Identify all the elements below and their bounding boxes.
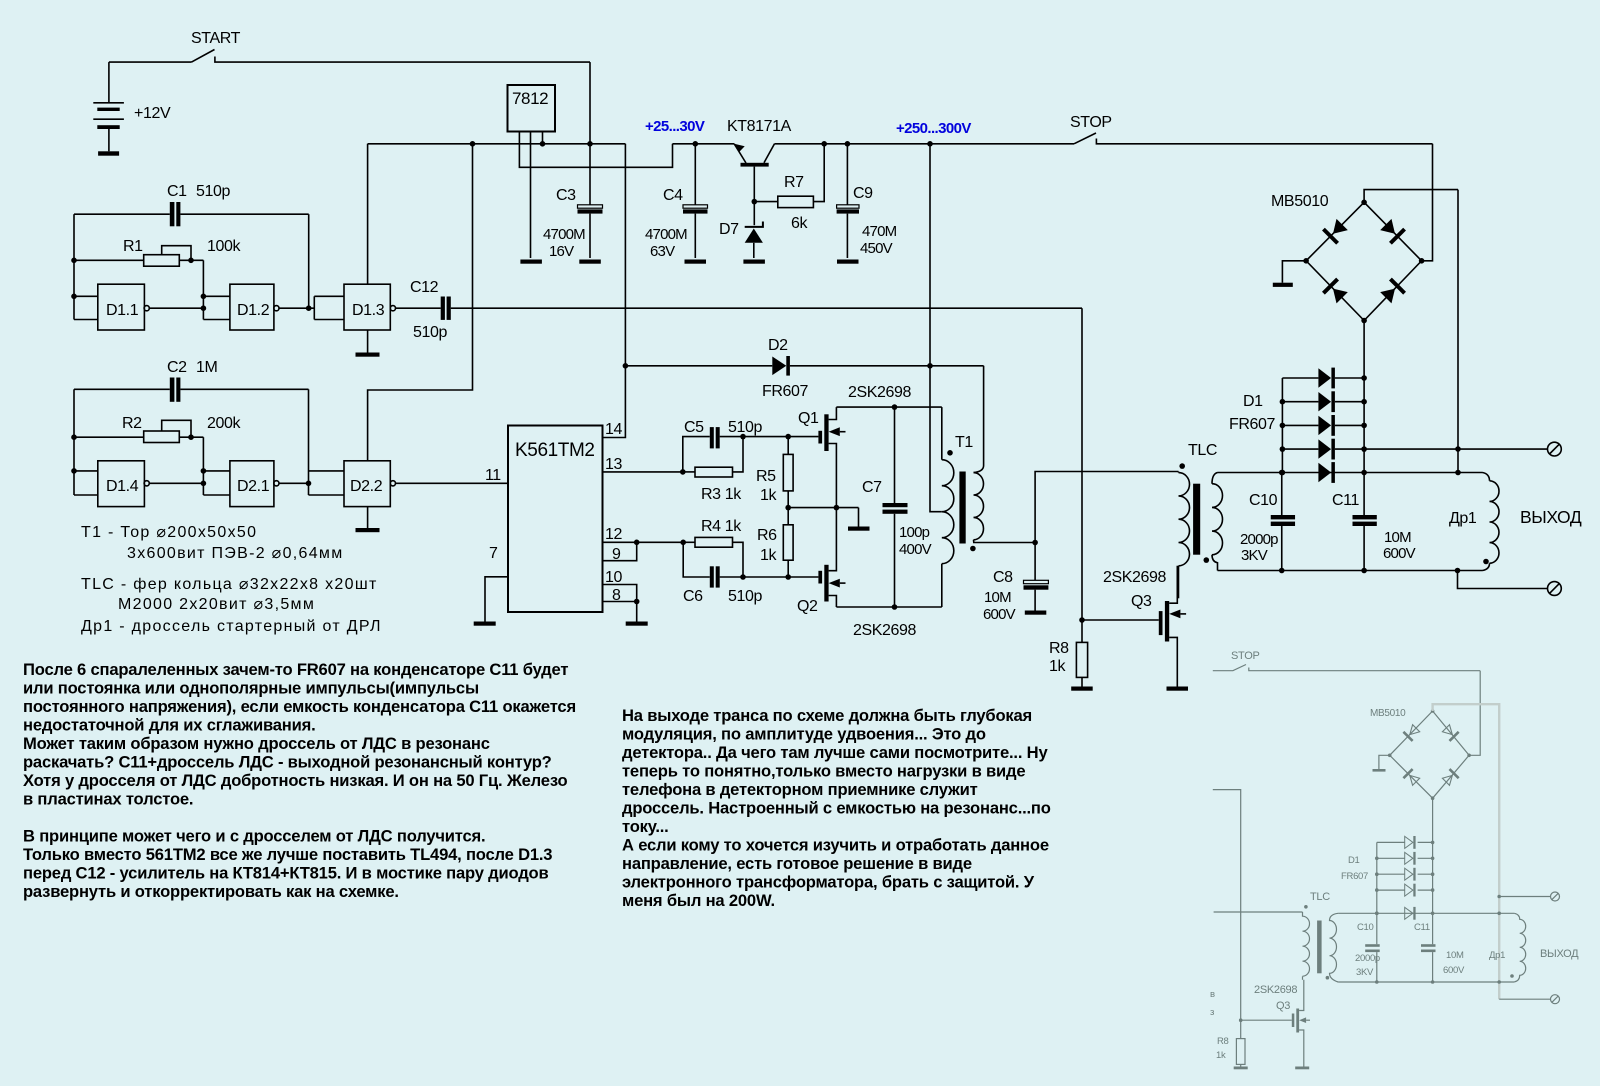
svg-text:1k: 1k xyxy=(760,487,777,504)
wire D2.1 out to D2.2 in xyxy=(279,389,344,495)
svg-text:D1.4: D1.4 xyxy=(106,478,139,495)
svg-text:А если кому то хочется изучить: А если кому то хочется изучить и отработ… xyxy=(622,836,1049,855)
svg-text:перед С12 - усилитель на КТ814: перед С12 - усилитель на КТ814+КТ815. И … xyxy=(23,864,549,883)
resistor R6 1k xyxy=(757,508,793,577)
capacitor C9 470M 450V xyxy=(837,144,897,264)
svg-text:в пластинах толстое.: в пластинах толстое. xyxy=(23,790,193,809)
svg-text:R3 1k: R3 1k xyxy=(701,486,742,503)
svg-text:модуляция, по амплитуде удвоен: модуляция, по амплитуде удвоения... Это … xyxy=(622,725,986,744)
wire bridge top to output column xyxy=(1455,190,1461,476)
svg-text:STOP: STOP xyxy=(1070,114,1112,131)
svg-text:з: з xyxy=(1210,1007,1214,1018)
svg-text:1k: 1k xyxy=(1216,1050,1226,1061)
transformer T1 xyxy=(942,366,984,607)
svg-text:200k: 200k xyxy=(207,415,241,432)
svg-text:D7: D7 xyxy=(719,221,739,238)
svg-text:дроссель. Настроенный с емкост: дроссель. Настроенный с емкостью на резо… xyxy=(622,799,1051,818)
transistor Q1 2SK2698 xyxy=(788,384,911,508)
svg-text:TLC - фер кольца ⌀32х22х8 х20ш: TLC - фер кольца ⌀32х22х8 х20шт xyxy=(81,576,378,593)
svg-text:FR607: FR607 xyxy=(1229,416,1276,433)
D1 diode row 2 xyxy=(1282,391,1364,412)
D1 diode row 3 xyxy=(1282,415,1364,436)
diode D2 FR607 xyxy=(623,337,984,400)
svg-text:C11: C11 xyxy=(1332,492,1359,509)
bridge MB5010 xyxy=(1271,190,1458,324)
resistor R5 1k xyxy=(756,437,793,508)
svg-text:Др1: Др1 xyxy=(1449,510,1477,527)
transistor KT8171A xyxy=(727,118,792,225)
svg-text:электронного трансформатора, б: электронного трансформатора, брать с защ… xyxy=(622,873,1035,892)
svg-text:R8: R8 xyxy=(1217,1036,1229,1047)
svg-text:На выходе транса по схеме долж: На выходе транса по схеме должна быть гл… xyxy=(622,706,1032,725)
gate D1.4 xyxy=(98,461,149,507)
bridge diode lower-left xyxy=(1322,278,1349,305)
svg-text:10M: 10M xyxy=(984,589,1011,606)
ground at bridge left vertex xyxy=(1273,261,1306,287)
capacitor C4 4700M 63V xyxy=(645,144,708,264)
capacitor C1 510p xyxy=(74,183,309,308)
svg-text:+250...300V: +250...300V xyxy=(896,120,971,137)
pin 10 xyxy=(603,569,637,602)
pin 11 xyxy=(396,467,509,484)
pin 12 xyxy=(603,526,687,545)
svg-text:14: 14 xyxy=(605,421,622,438)
wire row4 to upper terminal xyxy=(1364,448,1547,450)
svg-text:2SK2698: 2SK2698 xyxy=(853,622,917,639)
svg-text:R7: R7 xyxy=(784,174,804,191)
wire D1.1 out to D1.2 in xyxy=(149,260,230,319)
svg-text:постоянного напряжения), если: постоянного напряжения), если емкость ко… xyxy=(23,697,576,716)
svg-text:C1: C1 xyxy=(167,183,187,200)
svg-text:Хотя у дросселя от ЛДС добротн: Хотя у дросселя от ЛДС добротность низка… xyxy=(23,771,567,790)
faded copy: lower bus xyxy=(1338,980,1514,984)
svg-text:MB5010: MB5010 xyxy=(1370,708,1406,719)
resistor R3 1k xyxy=(683,437,743,503)
svg-text:развернуть и откорректировать: развернуть и откорректировать как на схе… xyxy=(23,882,399,901)
faded copy: wire C12 elbow to Q3 gate xyxy=(1213,790,1241,1021)
svg-text:детектора.. Да чего там лучше: детектора.. Да чего там лучше сами посмо… xyxy=(622,743,1048,762)
svg-text:В принципе может чего и с дрос: В принципе может чего и с дросселем от Л… xyxy=(23,827,485,846)
svg-text:2SK2698: 2SK2698 xyxy=(1254,984,1297,996)
wire lower output bus xyxy=(1218,568,1483,574)
wire upper output bus xyxy=(1218,470,1483,476)
faded copy: capacitor C11 xyxy=(1414,922,1465,982)
transformer TLC xyxy=(1179,442,1223,598)
switch START xyxy=(109,30,590,62)
wire C12 net down to Q3 gate xyxy=(1079,308,1159,623)
wire R5/R6 node to Q1 source xyxy=(785,505,858,511)
gate D1.3 xyxy=(344,284,396,330)
svg-text:K561TM2: K561TM2 xyxy=(515,440,595,461)
svg-text:C10: C10 xyxy=(1249,492,1278,509)
svg-text:телефона в детекторном приемни: телефона в детекторном приемнике служит xyxy=(622,780,978,799)
svg-text:3KV: 3KV xyxy=(1241,547,1268,564)
faded copy: diode stack D1 FR607 xyxy=(1341,798,1434,944)
svg-text:R2: R2 xyxy=(122,415,142,432)
svg-text:D2.2: D2.2 xyxy=(350,478,383,495)
gate D1.1 xyxy=(98,284,149,330)
capacitor C7 100p 400V xyxy=(862,407,932,607)
svg-text:R5: R5 xyxy=(756,468,776,485)
svg-text:11: 11 xyxy=(485,467,501,484)
capacitor C12 510p xyxy=(396,279,1083,341)
svg-text:600V: 600V xyxy=(983,606,1016,623)
wire TLC primary feed xyxy=(1035,472,1178,543)
bridge diode upper-left xyxy=(1322,217,1349,244)
faded copy: wire bridge top to output column xyxy=(1433,704,1501,999)
svg-text:510p: 510p xyxy=(728,588,762,605)
svg-text:ВЫХОД: ВЫХОД xyxy=(1520,507,1582,527)
wire D1.4 out to D2.1 in xyxy=(149,437,230,495)
svg-text:T1 - Тор ⌀200х50х50: T1 - Тор ⌀200х50х50 xyxy=(81,524,257,541)
svg-text:450V: 450V xyxy=(860,240,893,257)
faded copy: bridge diode UL xyxy=(1403,724,1421,742)
svg-text:Др1: Др1 xyxy=(1489,950,1505,961)
svg-text:TLC: TLC xyxy=(1310,891,1330,903)
svg-text:10M: 10M xyxy=(1384,529,1411,546)
svg-text:направление, есть готовое реше: направление, есть готовое решение в виде xyxy=(622,854,972,873)
resistor R4 1k xyxy=(683,518,743,577)
svg-text:C9: C9 xyxy=(853,185,873,202)
svg-text:R1: R1 xyxy=(123,238,143,255)
svg-text:Др1 - дроссель стартерный от Д: Др1 - дроссель стартерный от ДРЛ xyxy=(81,618,382,635)
wire center tap feed xyxy=(930,144,942,512)
svg-text:C7: C7 xyxy=(862,479,882,496)
faded copy: inductor Dr1 xyxy=(1489,913,1526,982)
faded copy: bridge diode UR xyxy=(1441,724,1459,742)
pin 7 xyxy=(474,545,508,626)
svg-text:3х600вит ПЭВ-2 ⌀0,64мм: 3х600вит ПЭВ-2 ⌀0,64мм xyxy=(127,545,344,562)
svg-text:KT8171A: KT8171A xyxy=(727,118,792,135)
svg-text:ВЫХОД: ВЫХОД xyxy=(1540,948,1579,960)
pin 14 xyxy=(603,144,626,438)
wire rail A to D2.2 power xyxy=(368,144,473,461)
D1 diode row 5 xyxy=(1318,462,1335,483)
faded copy: switch STOP xyxy=(1213,650,1480,671)
faded copy: resistor R8 xyxy=(1216,1020,1248,1069)
svg-text:2000p: 2000p xyxy=(1240,531,1278,548)
capacitor C8 10M 600V xyxy=(983,543,1048,624)
svg-text:Q3: Q3 xyxy=(1276,1000,1290,1012)
svg-text:400V: 400V xyxy=(899,541,932,558)
svg-text:R8: R8 xyxy=(1049,640,1069,657)
wire +12V feed down to rail xyxy=(589,62,591,144)
D1 diode row 1 xyxy=(1282,368,1364,389)
svg-text:T1: T1 xyxy=(955,434,973,451)
wire rail A to D1.3 power xyxy=(367,144,369,284)
svg-text:600V: 600V xyxy=(1383,545,1416,562)
wire D1.4 input bracket xyxy=(71,389,98,495)
pin 9 xyxy=(603,542,637,563)
svg-text:C2: C2 xyxy=(167,359,187,376)
svg-text:D1: D1 xyxy=(1243,393,1263,410)
svg-text:C3: C3 xyxy=(556,187,576,204)
svg-text:13: 13 xyxy=(605,456,622,473)
gate D2.1 xyxy=(230,461,279,507)
IC K561TM2 xyxy=(508,426,603,613)
gate D2.2 xyxy=(344,461,396,507)
wire Q2 source line xyxy=(836,604,941,610)
svg-text:Может таким образом нужно дрос: Может таким образом нужно дроссель от ЛД… xyxy=(23,734,490,753)
pin 13 xyxy=(603,456,683,473)
faded copy: wire to bridge right vertex xyxy=(1469,671,1480,756)
resistor R7 6k xyxy=(754,141,827,232)
potentiometer R1 100k xyxy=(122,415,142,432)
bridge diode lower-right xyxy=(1379,278,1406,305)
transistor Q2 2SK2698 xyxy=(797,508,917,639)
svg-text:току...: току... xyxy=(622,817,669,836)
wire D1.2 out to D1.3 in xyxy=(279,296,344,319)
svg-text:недостаточной для их сглаживан: недостаточной для их сглаживания. xyxy=(23,716,316,735)
diode stack D1 FR607 x5 xyxy=(1229,321,1367,516)
wire rail to bridge right vertex xyxy=(1422,144,1433,261)
svg-text:12: 12 xyxy=(605,526,622,543)
svg-text:C12: C12 xyxy=(410,279,439,296)
faded copy: capacitor C10 xyxy=(1355,913,1380,982)
svg-text:7812: 7812 xyxy=(512,89,548,108)
svg-text:100k: 100k xyxy=(207,238,241,255)
svg-text:М2000 2х20вит ⌀3,5мм: М2000 2х20вит ⌀3,5мм xyxy=(118,596,315,613)
wire T1 secondary bottom to C8 xyxy=(973,540,1038,546)
svg-text:После 6 спаралеленных зачем-то: После 6 спаралеленных зачем-то FR607 на … xyxy=(23,660,568,679)
ground at Q1 source xyxy=(848,508,870,531)
svg-text:6k: 6k xyxy=(791,215,808,232)
svg-text:D1: D1 xyxy=(1348,855,1360,866)
svg-text:C11: C11 xyxy=(1414,922,1430,933)
ground under D2.2 xyxy=(356,507,380,533)
svg-text:FR607: FR607 xyxy=(1341,871,1368,882)
svg-text:D2: D2 xyxy=(768,337,788,354)
svg-text:+25...30V: +25...30V xyxy=(645,118,705,135)
svg-text:470M: 470M xyxy=(862,223,897,240)
capacitor C11 10M 600V xyxy=(1332,492,1416,571)
faded copy: lower terminal xyxy=(1499,995,1559,1004)
svg-text:C8: C8 xyxy=(993,569,1013,586)
svg-text:раскачать? С11+дроссель ЛДС -: раскачать? С11+дроссель ЛДС - выходной р… xyxy=(23,753,552,772)
svg-text:10: 10 xyxy=(605,569,622,586)
svg-text:D1.2: D1.2 xyxy=(237,302,270,319)
svg-text:1k: 1k xyxy=(1049,658,1066,675)
capacitor C2 1M xyxy=(74,359,309,402)
svg-text:510p: 510p xyxy=(413,324,447,341)
svg-text:510p: 510p xyxy=(196,183,230,200)
faded copy: cutoff glyphs xyxy=(1210,989,1215,1018)
svg-text:510p: 510p xyxy=(728,419,762,436)
ground under D1.3 xyxy=(356,330,380,357)
svg-text:R4 1k: R4 1k xyxy=(701,518,742,535)
bridge diode upper-right xyxy=(1379,217,1406,244)
faded copy: bridge diode LR xyxy=(1441,768,1459,786)
battery +12V xyxy=(93,62,171,156)
svg-text:C5: C5 xyxy=(684,419,704,436)
svg-text:D1.3: D1.3 xyxy=(352,302,385,319)
faded copy: transistor Q3 xyxy=(1239,980,1310,1070)
svg-text:TLC: TLC xyxy=(1188,442,1217,459)
capacitor C5 510p xyxy=(680,419,791,475)
svg-text:Q2: Q2 xyxy=(797,598,818,615)
svg-text:меня был на 200W.: меня был на 200W. xyxy=(622,891,775,910)
capacitor C10 2000p 3KV xyxy=(1240,473,1295,571)
faded copy: bridge diode LL xyxy=(1403,768,1421,786)
svg-text:D2.1: D2.1 xyxy=(237,478,270,495)
svg-text:C4: C4 xyxy=(663,187,683,204)
gate D1.2 xyxy=(230,284,279,330)
svg-text:R6: R6 xyxy=(757,527,777,544)
terminal upper output xyxy=(1548,442,1562,456)
transistor Q3 2SK2698 xyxy=(1103,566,1188,691)
D1 diode row 4 xyxy=(1282,439,1364,460)
faded copy: upper bus xyxy=(1338,912,1514,916)
svg-text:или постоянка или однополярные: или постоянка или однополярные импульсы(… xyxy=(23,679,479,698)
svg-text:3KV: 3KV xyxy=(1356,967,1374,978)
svg-text:1k: 1k xyxy=(760,547,777,564)
paragraph right xyxy=(622,706,1051,910)
capacitor C3 4700M 16V xyxy=(543,144,603,264)
svg-text:16V: 16V xyxy=(549,243,574,260)
svg-text:FR607: FR607 xyxy=(762,383,809,400)
svg-text:START: START xyxy=(191,30,241,47)
switch STOP xyxy=(1070,114,1433,144)
svg-text:в: в xyxy=(1210,989,1215,1000)
svg-text:C6: C6 xyxy=(683,588,703,605)
svg-text:2SK2698: 2SK2698 xyxy=(1103,569,1167,586)
faded copy: upper terminal xyxy=(1499,892,1559,901)
pin 8 xyxy=(603,587,648,626)
wire rail B +25..30V xyxy=(673,141,735,147)
svg-text:теперь то понятно,только вмест: теперь то понятно,только вместо нагрузки… xyxy=(622,762,1025,781)
svg-text:STOP: STOP xyxy=(1231,650,1260,662)
terminal lower output xyxy=(1548,582,1562,596)
capacitor C6 510p xyxy=(683,542,818,605)
svg-text:1M: 1M xyxy=(196,359,217,376)
wire lower terminal xyxy=(1458,571,1548,589)
wire Q1 drain top xyxy=(836,404,941,410)
svg-text:100p: 100p xyxy=(899,524,930,541)
node +12V rail A xyxy=(368,141,626,147)
svg-text:Только вместо 561ТМ2 все же лу: Только вместо 561ТМ2 все же лучше постав… xyxy=(23,845,552,864)
svg-text:MB5010: MB5010 xyxy=(1271,193,1329,210)
wire D1.1 input bracket xyxy=(71,214,98,319)
wire rail B to STOP xyxy=(775,141,1075,147)
paragraph left xyxy=(23,660,576,901)
faded copy: transformer TLC xyxy=(1214,891,1339,982)
inductor Dr1 xyxy=(1449,473,1499,571)
svg-text:63V: 63V xyxy=(650,243,675,260)
svg-text:+12V: +12V xyxy=(134,105,171,122)
svg-text:Q1: Q1 xyxy=(798,410,819,427)
resistor R8 1k xyxy=(1049,620,1093,691)
svg-text:7: 7 xyxy=(489,545,498,562)
zener D7 xyxy=(719,221,765,264)
svg-text:600V: 600V xyxy=(1443,965,1465,976)
faded copy: bridge MB5010 xyxy=(1370,708,1471,800)
svg-text:2SK2698: 2SK2698 xyxy=(848,384,912,401)
svg-text:C10: C10 xyxy=(1357,922,1374,933)
svg-text:4700M: 4700M xyxy=(645,226,687,243)
svg-text:D1.1: D1.1 xyxy=(106,302,139,319)
svg-text:2000p: 2000p xyxy=(1355,953,1380,964)
svg-text:10M: 10M xyxy=(1446,950,1464,961)
potentiometer R2 200k xyxy=(71,415,241,443)
svg-text:Q3: Q3 xyxy=(1131,593,1152,610)
regulator 7812 xyxy=(508,85,673,264)
svg-text:4700M: 4700M xyxy=(543,226,585,243)
faded copy: ground at bridge left vertex xyxy=(1373,755,1390,771)
